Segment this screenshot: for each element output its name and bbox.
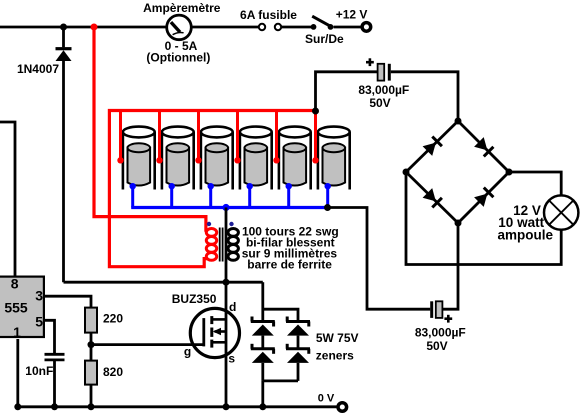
resistor R1 220 (85, 308, 97, 333)
transistor Q1 internals (204, 316, 226, 348)
node: C3 negative terminal (blue) (208, 183, 214, 189)
wire: blue stub from C2 - terminal to blue bus (blue) (170, 186, 173, 208)
wire: drain rail from diode D1 anode to zener stack (64, 281, 263, 284)
node: junction of 1N4007 branch on top rail (60, 24, 67, 31)
transformer T1 winding note (242, 224, 339, 271)
svg-text:1N4007: 1N4007 (17, 62, 59, 76)
wire: zener columns bottom bridge (263, 379, 298, 382)
wire: divider node to MOSFET gate (91, 343, 205, 346)
diode D5 bridge bottom-right (points to right corner) (474, 188, 493, 207)
svg-text:Ampèremètre: Ampèremètre (143, 1, 221, 15)
svg-text:BUZ350: BUZ350 (172, 292, 217, 306)
wire: blue stub from C3 - terminal to blue bus (blue) (209, 186, 212, 208)
wire: red stub from bus to C5 + terminal (red) (275, 111, 278, 160)
svg-text:5: 5 (35, 313, 43, 329)
diode D3 bridge top-right (points to right corner) (474, 137, 493, 156)
wire: red stub from bus to C2 + terminal (red) (158, 111, 161, 160)
wire: lamp bottom around to bridge left corner (406, 172, 561, 265)
wire: 555 pin 5 to capacitor C9 (44, 320, 55, 354)
svg-text:(Optionnel): (Optionnel) (146, 51, 210, 65)
svg-text:5W 75V: 5W 75V (316, 331, 359, 345)
node: C1 negative terminal (blue) (130, 183, 136, 189)
svg-text:barre de ferrite: barre de ferrite (247, 257, 332, 271)
wire: switch to +12V terminal (334, 26, 362, 29)
node: bridge bottom corner (455, 220, 462, 227)
wire: main +12V top rail from left edge to ammeter (0, 26, 167, 29)
svg-text:10nF: 10nF (25, 364, 53, 378)
node: C2 negative terminal (blue) (169, 183, 175, 189)
wire: top rail down to diode D1 (62, 27, 65, 47)
lamp LP1 12V 10W (544, 195, 578, 229)
transformer T1 core (220, 228, 223, 262)
svg-text:820: 820 (103, 365, 123, 379)
capacitor C6 of bank: inner body (323, 143, 346, 185)
svg-text:8: 8 (11, 275, 19, 291)
zener Z1 5W 75V (left column top) (251, 317, 275, 336)
transformer T1 primary winding (red) (206, 229, 216, 261)
node: junction of capacitor-bank red feed on top rail (red) (91, 24, 98, 31)
capacitor C7 83,000uF 50V electrolytic (378, 64, 390, 81)
wire: transformer secondary lead from blue bus down to drain node (225, 208, 228, 283)
wire: C9 to 0V rail (53, 360, 56, 407)
wire: C7 to bridge top corner (391, 72, 458, 121)
svg-text:555: 555 (4, 300, 28, 316)
transformer T1 secondary winding (228, 229, 238, 261)
svg-text:50V: 50V (369, 96, 390, 110)
transformer T1 primary phasing dot (navy) (207, 222, 211, 226)
node: C2 positive terminal (red) (156, 157, 162, 163)
node: bridge right corner (506, 169, 513, 176)
wire: red stub from bus to C4 + terminal (red) (236, 111, 239, 160)
wire: R2 to 0V rail (90, 385, 93, 407)
node: bridge top corner (455, 118, 462, 125)
zener Z4 5W 75V (right column bottom) (286, 344, 310, 363)
svg-text:ampoule: ampoule (498, 227, 554, 242)
node: drain junction (transformer secondary / MOSFET drain) (223, 279, 230, 286)
wire: left-edge feed to 555 pin 8 (0, 122, 15, 277)
node: red bus right end junction to black riser (312, 108, 319, 115)
wire: fuse to switch (282, 26, 312, 29)
wire: zener stack to 0V rail (261, 381, 264, 407)
wire: divider node down to resistor R2 (90, 345, 93, 361)
wire: Z2 to bottom bridge (261, 363, 264, 381)
node: C6 positive terminal (red) (312, 157, 318, 163)
wire: 555 pin 1 to 0V rail (16, 339, 19, 407)
wire: 555 pin 3 to resistor R1 (44, 296, 92, 307)
wire: blue stub from C6 - terminal to blue bus (blue) (326, 186, 329, 208)
wire: diode D1 anode down to drain node line (62, 60, 65, 282)
node: pin1 on 0V rail (14, 403, 21, 410)
wire: red bus node up and right to reservoir capacitor C7 (316, 72, 378, 111)
node: blue bus right end junction to black wire (324, 204, 331, 211)
wire: red stub from bus to C1 + terminal (red) (119, 111, 122, 160)
node: R1/R2 divider junction (88, 341, 95, 348)
capacitor C5 of bank: inner body (284, 143, 307, 185)
svg-text:zeners: zeners (316, 348, 354, 362)
capacitor C6 of bank: outer can (318, 127, 350, 190)
wire: transformer primary bottom back to red bus riser (red) (109, 111, 315, 267)
svg-text:1: 1 (13, 324, 21, 340)
node: bridge left corner (403, 169, 410, 176)
wire: blue stub from C1 - terminal to blue bus (blue) (131, 186, 134, 208)
node: blue bus junction with transformer secondary (blue) (222, 204, 229, 211)
wire: drain node down through MOSFET to 0V rail (drain/source vertical) (225, 282, 228, 407)
capacitor C5 of bank: outer can (279, 127, 311, 190)
capacitor C7 83000uF polarity + (366, 58, 374, 66)
svg-text:50V: 50V (426, 339, 447, 353)
capacitor C3 of bank: outer can (201, 127, 233, 190)
svg-text:Sur/De: Sur/De (305, 32, 344, 46)
wire: drain rail down to zener columns bridge (261, 282, 264, 321)
node: C9 on 0V rail (51, 403, 58, 410)
svg-text:3: 3 (35, 287, 43, 303)
wire: bridge right corner to lamp top (509, 172, 561, 197)
node: MOSFET source on 0V rail (223, 403, 230, 410)
capacitor C1 of bank: inner body (128, 143, 151, 185)
node: C6 negative terminal (blue) (325, 183, 331, 189)
diode D1 1N4007 (cathode up) (56, 49, 72, 61)
wire: red feed from top rail down and across to transformer primary top (red) (94, 27, 208, 230)
wire: blue stub from C5 - terminal to blue bus (blue) (287, 186, 290, 208)
switch S1 Sur/De (311, 16, 334, 30)
fuse F1 6A symbol (259, 24, 281, 30)
transistor Q1 BUZ350 MOSFET body circle (190, 308, 239, 357)
wire: bridge bottom corner down to capacitor C8 right plate (442, 223, 458, 309)
wire: zener columns top bridge (263, 309, 298, 321)
svg-text:+12 V: +12 V (336, 8, 368, 22)
svg-text:83,000µF: 83,000µF (415, 326, 466, 340)
wire: blue negative bus under capacitor bank (blue) (131, 206, 327, 209)
wire: bridge arm bottom-right (458, 172, 509, 223)
wire: red stub from bus to C6 + terminal (red) (314, 111, 317, 160)
wire: bridge arm top-left (406, 121, 458, 172)
terminal +12V ring (362, 23, 371, 32)
node: C4 negative terminal (blue) (247, 183, 253, 189)
wire: Z4 to bottom bridge (297, 363, 300, 381)
wire: Z3 to Z4 (297, 336, 300, 349)
capacitor C1 of bank: outer can (123, 127, 155, 190)
capacitor C3 of bank: inner body (206, 143, 229, 185)
node: zener stack on 0V rail (259, 403, 266, 410)
svg-text:220: 220 (103, 312, 123, 326)
wire: blue stub from C4 - terminal to blue bus (blue) (248, 186, 251, 208)
ammeter M1 0-5A meter (167, 15, 192, 40)
wire: bridge arm top-right (458, 121, 509, 172)
wire: red stub from bus to C3 + terminal (red) (197, 111, 200, 160)
node: C5 positive terminal (red) (273, 157, 279, 163)
capacitor C4 of bank: outer can (240, 127, 272, 190)
capacitor C2 of bank: inner body (167, 143, 190, 185)
node: C4 positive terminal (red) (234, 157, 240, 163)
capacitor C8 83,000uF 50V electrolytic (432, 301, 443, 318)
zener Z2 5W 75V (left column bottom) (251, 344, 275, 363)
wire: ammeter to fuse (191, 26, 259, 29)
capacitor C2 of bank: outer can (162, 127, 194, 190)
capacitor C8 polarity + (444, 315, 452, 323)
resistor R2 820 (85, 361, 97, 385)
node: C3 positive terminal (red) (195, 157, 201, 163)
capacitor C9 10nF (45, 354, 65, 360)
terminal 0V ring (338, 403, 347, 412)
wire: bridge arm bottom-left (406, 172, 458, 223)
transformer T1 secondary phasing dot (navy) (229, 222, 233, 226)
node: C5 negative terminal (blue) (286, 183, 292, 189)
diode D2 bridge top-left (points to top corner) (423, 137, 442, 156)
wire: R1 to divider node (90, 333, 93, 345)
svg-text:0 V: 0 V (318, 393, 335, 405)
wire: blue bus end right then down to C8 left plate (328, 208, 431, 310)
svg-text:g: g (184, 344, 191, 358)
wire: Z1 to Z2 (261, 336, 264, 349)
IC U1 555 timer body (0, 277, 44, 337)
node: C1 positive terminal (red) (117, 157, 123, 163)
wire: 0V rail (16, 405, 337, 408)
capacitor C4 of bank: inner body (245, 143, 268, 185)
zener Z3 5W 75V (right column top) (286, 317, 310, 336)
diode D4 bridge bottom-left (points to bottom corner) (423, 188, 442, 207)
node: R2 on 0V rail (88, 403, 95, 410)
svg-text:6A fusible: 6A fusible (240, 8, 297, 22)
